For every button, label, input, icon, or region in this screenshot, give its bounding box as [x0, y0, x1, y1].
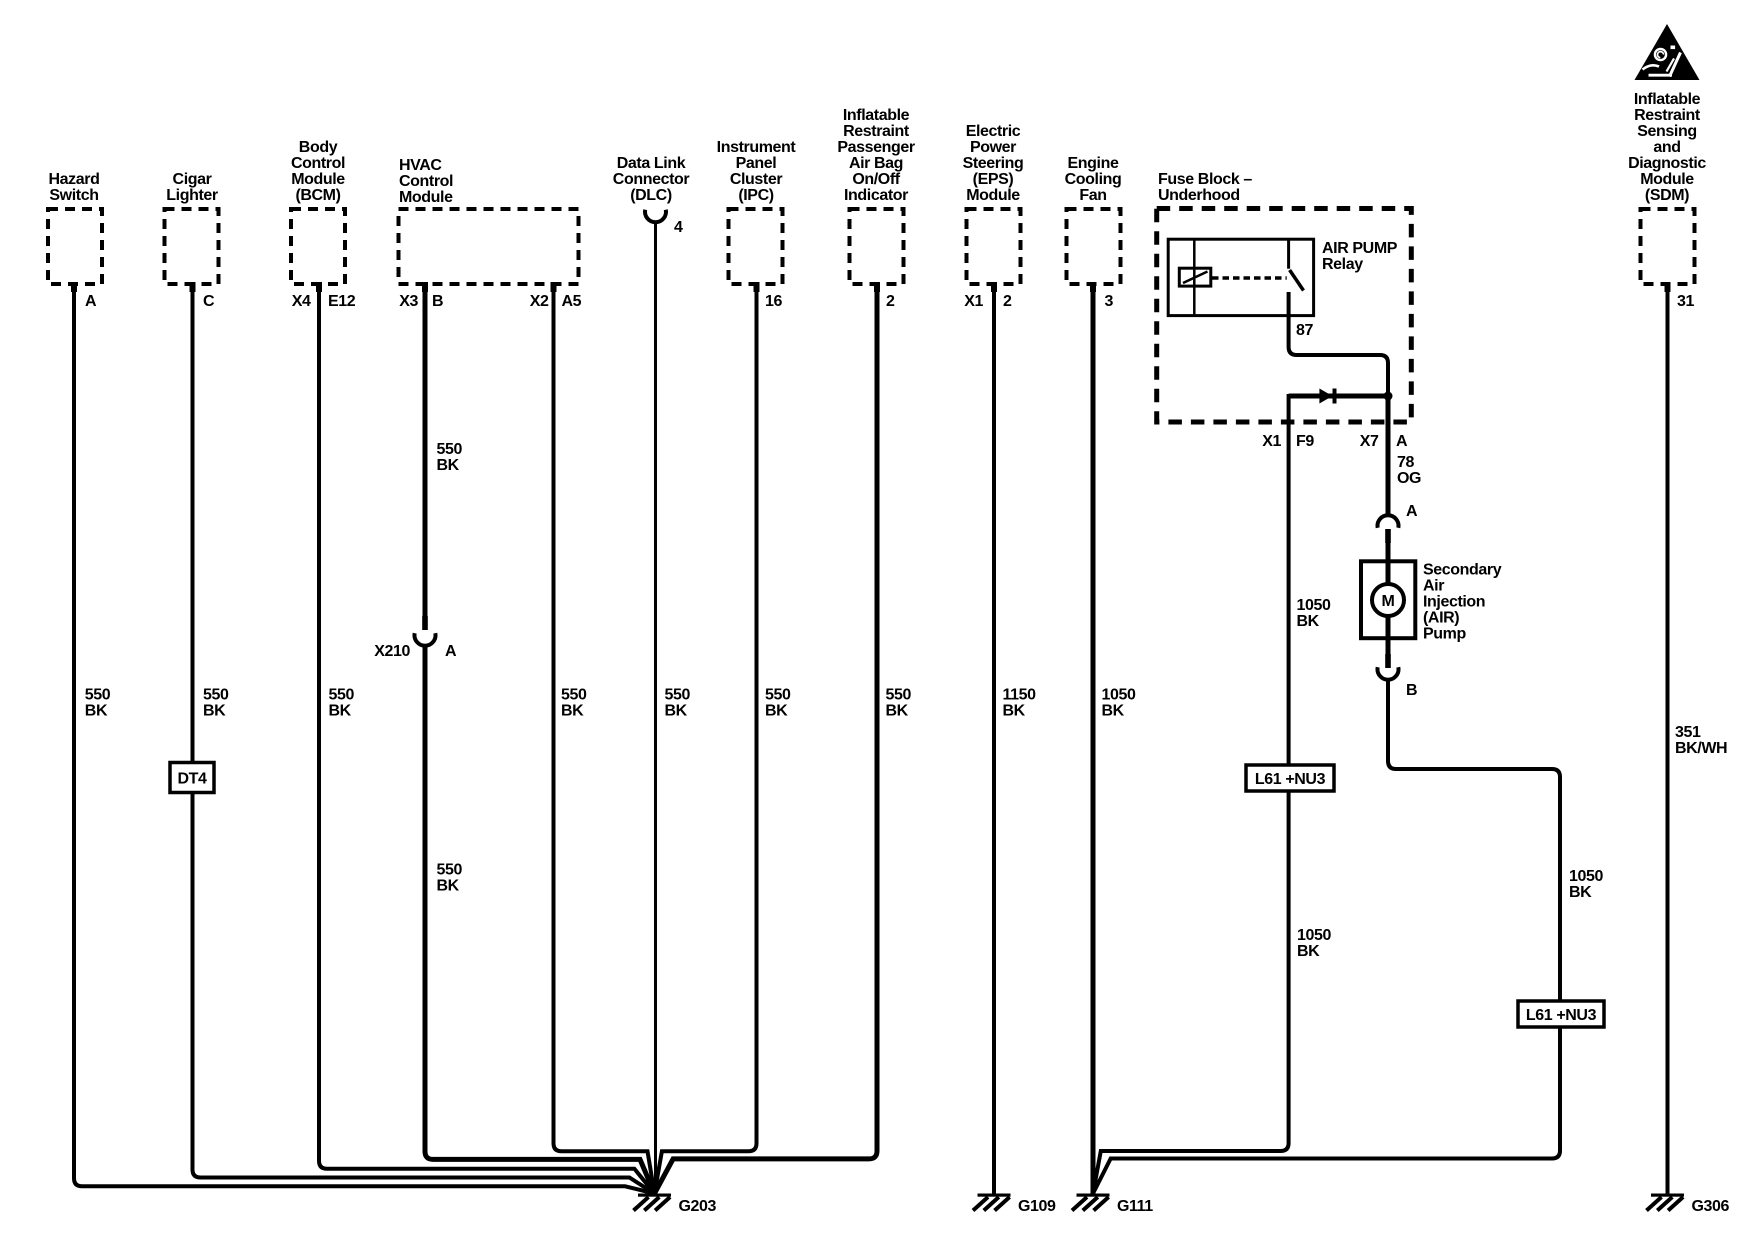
- svg-text:Power: Power: [970, 139, 1016, 156]
- wire air bag indicator 2 to G203: [655, 284, 878, 1194]
- hazard switch box: [48, 209, 102, 284]
- wire cigar lighter C to G203: [193, 284, 655, 1194]
- svg-text:Underhood: Underhood: [1158, 187, 1240, 204]
- svg-text:(EPS): (EPS): [973, 171, 1014, 188]
- svg-text:Lighter: Lighter: [166, 187, 218, 204]
- svg-text:2: 2: [1003, 293, 1012, 310]
- wire connector A to AIR pump: [1386, 543, 1391, 584]
- svg-text:Panel: Panel: [736, 155, 777, 172]
- pin stub HVAC A5: [551, 282, 557, 292]
- air bag on/off indicator box: [850, 209, 904, 284]
- pin stub HVAC B: [422, 282, 428, 292]
- ground G109: [973, 1194, 1011, 1211]
- svg-text:2: 2: [886, 293, 895, 310]
- svg-text:Fan: Fan: [1079, 187, 1106, 204]
- svg-text:F9: F9: [1296, 433, 1314, 450]
- svg-text:Air Bag: Air Bag: [849, 155, 903, 172]
- svg-text:A: A: [445, 643, 457, 660]
- relay K box: [1168, 239, 1313, 315]
- svg-text:78: 78: [1397, 454, 1414, 471]
- cigar lighter box: [165, 209, 219, 284]
- engine cooling fan box: [1067, 209, 1121, 284]
- svg-text:A: A: [85, 293, 97, 310]
- svg-text:1050: 1050: [1297, 597, 1331, 614]
- svg-text:L61 +NU3: L61 +NU3: [1255, 771, 1326, 788]
- svg-text:550: 550: [665, 687, 691, 704]
- svg-text:G306: G306: [1692, 1198, 1730, 1215]
- svg-text:Engine: Engine: [1068, 155, 1119, 172]
- svg-text:BK: BK: [329, 703, 352, 720]
- svg-text:31: 31: [1677, 293, 1694, 310]
- svg-text:Cooling: Cooling: [1065, 171, 1122, 188]
- svg-text:550: 550: [85, 687, 111, 704]
- svg-text:C: C: [203, 293, 215, 310]
- svg-text:550: 550: [329, 687, 355, 704]
- svg-text:G203: G203: [679, 1198, 717, 1215]
- svg-text:BK: BK: [437, 878, 460, 895]
- svg-text:E12: E12: [328, 293, 356, 310]
- fuse block underhood box: [1157, 209, 1412, 423]
- DT4 option box: [170, 763, 214, 793]
- wire engine cooling fan 3 to G111: [1091, 284, 1096, 1195]
- pin stub hazard A: [71, 282, 77, 292]
- svg-text:Module: Module: [399, 189, 453, 206]
- svg-text:X1: X1: [964, 293, 983, 310]
- svg-text:A: A: [1396, 433, 1408, 450]
- svg-text:Restraint: Restraint: [1634, 107, 1701, 124]
- svg-text:BK: BK: [765, 703, 788, 720]
- warning triangle SRS icon: [1635, 24, 1700, 80]
- svg-text:1050: 1050: [1102, 687, 1136, 704]
- svg-text:Restraint: Restraint: [843, 123, 910, 140]
- relay switch fixed contact: [1287, 239, 1290, 269]
- in-line connector B (pump): [1378, 654, 1399, 680]
- svg-text:Hazard: Hazard: [49, 171, 100, 188]
- svg-text:HVAC: HVAC: [399, 157, 442, 174]
- terminal stubs at module pins: [71, 282, 1671, 292]
- GROUNDS: [634, 1194, 1685, 1211]
- svg-text:Data Link: Data Link: [617, 155, 686, 172]
- wire diode row F9 to X7: [1289, 394, 1388, 399]
- EPS module box: [967, 209, 1021, 284]
- svg-text:(BCM): (BCM): [295, 187, 340, 204]
- MODULE BOXES: [48, 209, 1695, 423]
- wire X7 A to connector A: [1386, 396, 1391, 516]
- svg-text:550: 550: [561, 687, 587, 704]
- svg-text:OG: OG: [1397, 470, 1421, 487]
- svg-text:BK/WH: BK/WH: [1675, 740, 1727, 757]
- svg-text:Instrument: Instrument: [717, 139, 797, 156]
- svg-text:X3: X3: [399, 293, 418, 310]
- svg-text:1050: 1050: [1297, 927, 1331, 944]
- svg-text:Secondary: Secondary: [1423, 562, 1502, 579]
- svg-text:X210: X210: [374, 643, 410, 660]
- wire EPS 2 to G109: [992, 284, 996, 1195]
- motor M: [1372, 584, 1404, 616]
- pin stub fan 3: [1090, 282, 1096, 292]
- svg-text:Relay: Relay: [1322, 256, 1363, 273]
- relay coil: [1179, 268, 1211, 286]
- svg-text:Pump: Pump: [1423, 626, 1466, 643]
- wire DLC 4 to G203: [654, 222, 657, 1194]
- svg-text:Module: Module: [1640, 171, 1694, 188]
- diode CR1: [1319, 389, 1336, 404]
- svg-text:Diagnostic: Diagnostic: [1628, 155, 1706, 172]
- svg-text:B: B: [1406, 682, 1417, 699]
- svg-text:Module: Module: [291, 171, 345, 188]
- svg-text:B: B: [432, 293, 443, 310]
- svg-text:Inflatable: Inflatable: [843, 107, 910, 124]
- svg-text:X2: X2: [530, 293, 549, 310]
- svg-text:BK: BK: [1569, 884, 1592, 901]
- svg-text:BK: BK: [1297, 943, 1320, 960]
- instrument panel cluster box: [729, 209, 783, 284]
- svg-text:16: 16: [765, 293, 782, 310]
- svg-text:Passenger: Passenger: [837, 139, 915, 156]
- wire F9 X1 to G111: [1093, 394, 1289, 1194]
- svg-text:Switch: Switch: [49, 187, 98, 204]
- splice X210: [415, 616, 436, 646]
- svg-text:550: 550: [437, 441, 463, 458]
- svg-text:(SDM): (SDM): [1645, 187, 1689, 204]
- svg-text:Electric: Electric: [966, 123, 1021, 140]
- svg-text:Injection: Injection: [1423, 594, 1485, 611]
- svg-text:A5: A5: [562, 293, 582, 310]
- svg-text:G111: G111: [1117, 1198, 1153, 1215]
- svg-text:BK: BK: [437, 457, 460, 474]
- svg-text:BK: BK: [203, 703, 226, 720]
- pin stub IPC 16: [754, 282, 760, 292]
- L61 +NU3 box 1: [1246, 765, 1334, 791]
- svg-text:550: 550: [437, 862, 463, 879]
- svg-text:(DLC): (DLC): [630, 187, 672, 204]
- wire connector B to L61 branch to G111: [1093, 681, 1560, 1194]
- L61 +NU3 box 2: [1518, 1001, 1604, 1027]
- junction dot X7/A: [1384, 392, 1393, 401]
- svg-text:X1: X1: [1262, 433, 1281, 450]
- svg-text:550: 550: [765, 687, 791, 704]
- wire IPC 16 to G203: [655, 284, 757, 1194]
- relay coil feed line: [1193, 239, 1196, 315]
- svg-text:1150: 1150: [1003, 687, 1037, 704]
- secondary air injection pump: [1361, 561, 1415, 638]
- wire inside pump to connector B: [1386, 616, 1391, 656]
- ground G203: [634, 1194, 672, 1211]
- wire hazard switch A to G203: [74, 284, 655, 1194]
- svg-text:X7: X7: [1360, 433, 1379, 450]
- body control module box: [291, 209, 345, 284]
- svg-text:BK: BK: [1003, 703, 1026, 720]
- svg-text:Control: Control: [291, 155, 345, 172]
- svg-text:1050: 1050: [1569, 868, 1603, 885]
- HVAC control module box: [399, 209, 579, 284]
- wire HVAC A5 to G203: [554, 284, 655, 1194]
- svg-text:Cigar: Cigar: [173, 171, 212, 188]
- wire HVAC B to splice X210: [423, 284, 428, 618]
- svg-text:Inflatable: Inflatable: [1634, 91, 1701, 108]
- svg-text:BK: BK: [85, 703, 108, 720]
- svg-text:Indicator: Indicator: [844, 187, 908, 204]
- svg-text:DT4: DT4: [177, 771, 207, 788]
- ground G306: [1647, 1194, 1685, 1211]
- svg-text:Sensing: Sensing: [1637, 123, 1696, 140]
- svg-text:4: 4: [674, 219, 683, 236]
- svg-text:BK: BK: [665, 703, 688, 720]
- svg-text:BK: BK: [561, 703, 584, 720]
- svg-text:Body: Body: [299, 139, 338, 156]
- svg-text:and: and: [1653, 139, 1680, 156]
- pin stub EPS 2: [991, 282, 997, 292]
- wire BCM E12 to G203: [319, 284, 655, 1194]
- svg-text:Connector: Connector: [613, 171, 690, 188]
- svg-text:550: 550: [203, 687, 229, 704]
- pin stub airbag 2: [874, 282, 880, 292]
- svg-text:BK: BK: [1102, 703, 1125, 720]
- connector DLC cup: [645, 210, 666, 223]
- wire SDM 31 to G306: [1666, 284, 1670, 1195]
- svg-text:(AIR): (AIR): [1423, 610, 1459, 627]
- SDM box: [1641, 209, 1695, 284]
- svg-text:87: 87: [1296, 322, 1313, 339]
- svg-text:BK: BK: [1297, 613, 1320, 630]
- wire splice X210 to G203: [425, 647, 655, 1194]
- AIR PUMP RELAY: [1168, 239, 1313, 315]
- svg-text:Cluster: Cluster: [730, 171, 782, 188]
- pin stub BCM E12: [316, 282, 322, 292]
- svg-text:Fuse Block –: Fuse Block –: [1158, 171, 1252, 188]
- ground G111: [1072, 1194, 1110, 1211]
- svg-text:Air: Air: [1423, 578, 1444, 595]
- svg-text:Control: Control: [399, 173, 453, 190]
- in-line connector A (pump): [1378, 515, 1399, 543]
- wire relay 87 to diode junction: [1289, 292, 1388, 393]
- svg-text:A: A: [1406, 503, 1418, 520]
- svg-text:BK: BK: [886, 703, 909, 720]
- relay switch blade: [1290, 270, 1304, 291]
- svg-text:351: 351: [1675, 724, 1701, 741]
- svg-text:Module: Module: [966, 187, 1020, 204]
- svg-text:On/Off: On/Off: [852, 171, 900, 188]
- svg-text:3: 3: [1105, 293, 1114, 310]
- svg-text:AIR PUMP: AIR PUMP: [1322, 240, 1398, 257]
- svg-text:X4: X4: [292, 293, 311, 310]
- pin stub SDM 31: [1665, 282, 1671, 292]
- svg-text:550: 550: [886, 687, 912, 704]
- relay actuation dashed link: [1212, 276, 1287, 280]
- pin stub cigar C: [190, 282, 196, 292]
- svg-text:M: M: [1382, 593, 1395, 610]
- svg-text:(IPC): (IPC): [738, 187, 773, 204]
- svg-text:G109: G109: [1018, 1198, 1056, 1215]
- svg-text:L61 +NU3: L61 +NU3: [1526, 1007, 1597, 1024]
- svg-text:Steering: Steering: [963, 155, 1024, 172]
